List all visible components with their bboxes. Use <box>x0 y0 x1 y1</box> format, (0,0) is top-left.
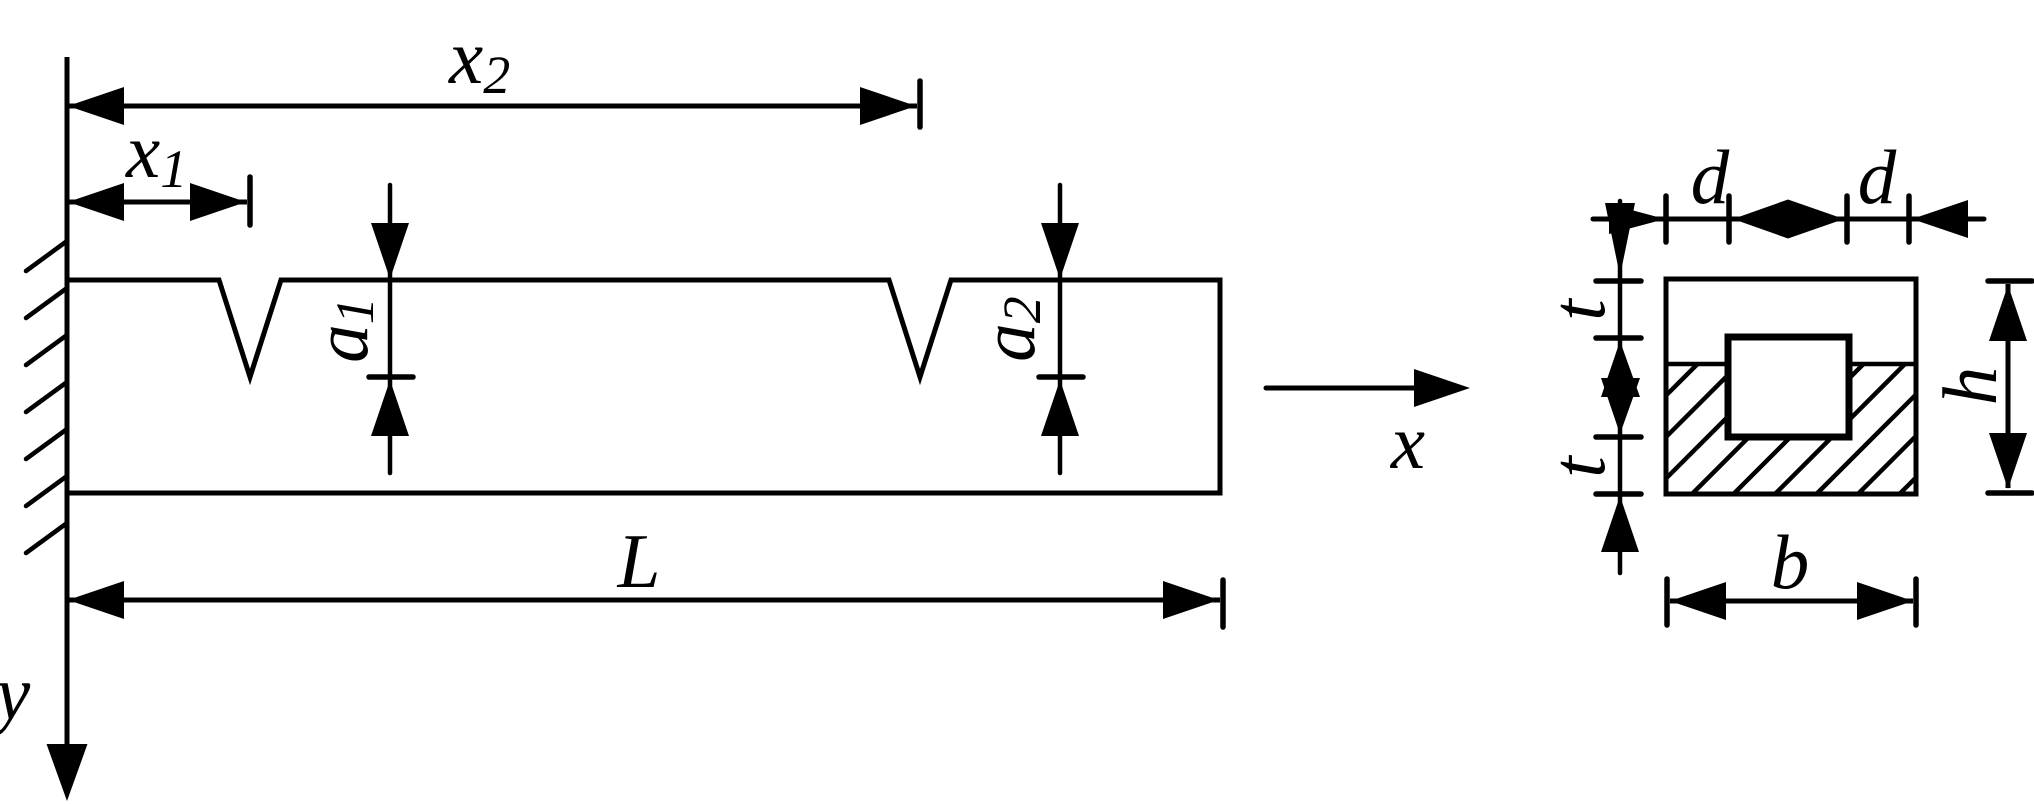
svg-text:x: x <box>1390 399 1425 485</box>
x axis arrow <box>1266 369 1470 485</box>
svg-text:d: d <box>1858 134 1897 220</box>
dimension x2 <box>67 14 920 127</box>
svg-text:h: h <box>1927 367 2013 406</box>
dimension d-d (top) <box>1593 134 1984 276</box>
dimension h (right of section) <box>1927 281 2032 493</box>
svg-text:t: t <box>1535 455 1621 478</box>
dimension a1 <box>298 185 413 473</box>
dimension L <box>67 518 1223 627</box>
cross-section hatch top line <box>1666 362 1916 367</box>
svg-text:a2: a2 <box>965 296 1052 362</box>
cross-section hatching <box>1568 363 2031 494</box>
svg-text:L: L <box>617 518 661 604</box>
cross-section slot (keyway) <box>1728 337 1849 437</box>
dimension b (below section) <box>1667 519 1916 625</box>
cross-section outer rectangle <box>1666 279 1916 494</box>
fixed wall / y-axis line <box>47 57 88 801</box>
wall hatching <box>26 241 67 553</box>
svg-text:t: t <box>1535 298 1621 321</box>
svg-text:x2: x2 <box>448 14 510 105</box>
svg-text:b: b <box>1771 519 1810 605</box>
y axis label <box>0 650 31 736</box>
dimension x1 <box>67 108 250 225</box>
beam outline with notch 1 and notch 2 <box>67 280 1220 493</box>
svg-text:y: y <box>0 650 31 736</box>
svg-text:d: d <box>1691 134 1730 220</box>
dimension a2 <box>965 185 1083 473</box>
svg-text:a1: a1 <box>298 297 385 363</box>
dimension t-t (left of section) <box>1535 201 1641 573</box>
svg-text:x1: x1 <box>125 108 187 199</box>
